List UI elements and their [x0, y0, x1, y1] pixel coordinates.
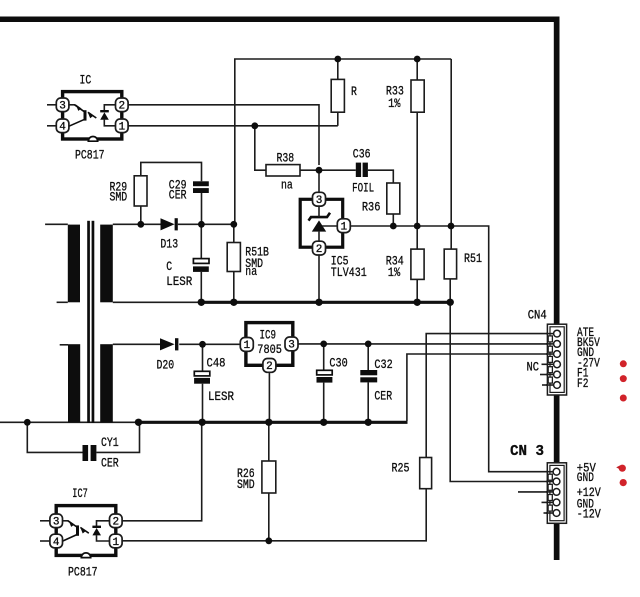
svg-text:C30: C30 — [329, 355, 347, 370]
wire: R51B top leg — [233, 224, 235, 242]
IC9 pin 1 oval — [240, 338, 253, 353]
transformer T1 — [68, 221, 113, 423]
svg-text:FOIL: FOIL — [352, 180, 374, 195]
resistor R26 — [262, 461, 276, 493]
svg-text:2: 2 — [266, 361, 273, 373]
wire: C30 bottom leg — [323, 383, 325, 423]
opto IC phototransistor bar — [84, 110, 87, 120]
wire: R51 column top (top rail to IC5 pin1 node) — [450, 59, 452, 250]
svg-text:-12V: -12V — [577, 507, 601, 522]
transformer upper secondary bar — [100, 225, 113, 303]
svg-text:CER: CER — [101, 456, 119, 471]
wire: IC9 pin3 to CN4 BK5V — [298, 343, 554, 345]
svg-text:2: 2 — [112, 517, 119, 529]
svg-text:1: 1 — [243, 340, 250, 352]
resistor R33 — [411, 80, 424, 112]
IC7 notch — [81, 553, 90, 558]
svg-text:TLV431: TLV431 — [331, 265, 367, 280]
CN3 pin circles — [553, 468, 560, 516]
opto IC LED triangle — [100, 112, 109, 119]
svg-text:R38: R38 — [277, 151, 295, 166]
wire: upper GND bus to CN3 GND — [450, 302, 552, 481]
capacitor C30 (polarized) — [317, 370, 333, 382]
wire: IC5 pin2 to upper GND bus — [318, 254, 320, 302]
resistors (white boxes) — [134, 79, 456, 493]
IC7 LED triangle — [92, 528, 101, 535]
wire: CN4 F1 stub — [540, 374, 553, 376]
wire: CN4 NC stub — [542, 363, 553, 365]
wire: C48 bottom leg to lower GND bus — [202, 384, 204, 423]
resistor R51B — [227, 243, 240, 272]
diode D13 — [161, 218, 178, 230]
wire: R51B bottom leg to upper GND bus — [233, 272, 235, 303]
wire: C32 bottom leg — [367, 382, 369, 422]
IC7 collector diagonal with arrowhead — [68, 521, 78, 528]
IC5 internal triangle — [312, 220, 326, 231]
opto IC pin 1 oval — [116, 119, 129, 134]
wire: D13 secondary rail right of diode — [178, 223, 234, 225]
svg-text:IC9: IC9 — [260, 328, 277, 343]
IC5 pin 1 oval — [337, 219, 350, 234]
wire: CN4 F2 stub — [542, 384, 553, 386]
wire: R26 top leg — [268, 422, 270, 461]
wire: CN3 +12V stub — [518, 491, 552, 493]
transformer core line left — [87, 221, 90, 423]
board border top bar — [0, 17, 560, 23]
CN3 teeth — [548, 474, 552, 511]
opto IC pin 4 oval — [56, 119, 69, 134]
resistor R29 — [134, 176, 147, 206]
svg-text:R36: R36 — [362, 199, 381, 214]
capacitor CY1 (vertical plates) — [83, 445, 97, 461]
svg-text:SMD: SMD — [110, 190, 128, 205]
CN4 wire tips through border — [546, 334, 554, 385]
wire: R36 bottom to IC5 pin1 wire — [392, 214, 394, 226]
red marker dot with tail near CN3 +5V — [616, 465, 626, 472]
connector CN3 — [546, 463, 567, 524]
wire: opto IC pin4 stub — [47, 125, 57, 127]
svg-text:IC7: IC7 — [72, 486, 88, 501]
board border right bar — [554, 17, 560, 561]
wire: C29 bottom to rail — [201, 193, 203, 224]
svg-text:R51: R51 — [464, 251, 482, 266]
wire: upper transformer primary bottom stub — [57, 301, 68, 303]
svg-text:3: 3 — [53, 517, 60, 529]
op-amp/regulator IC5 TLV431 box — [300, 199, 343, 247]
resistor R — [331, 79, 344, 112]
wire: CN3 GND2 stub — [542, 501, 553, 503]
svg-text:C36: C36 — [353, 146, 371, 161]
svg-text:4: 4 — [59, 122, 66, 134]
wire: R29 bottom stub — [140, 206, 142, 224]
wire: R26 bottom leg to IC7 pin1 run — [268, 493, 270, 541]
svg-text:C48: C48 — [207, 355, 226, 370]
wire: CN4 GND vertical from lower bus end — [407, 354, 553, 421]
wire: D13 secondary rail left of diode — [113, 223, 161, 225]
optocoupler IC (PC817) box — [63, 92, 122, 142]
svg-text:3: 3 — [316, 195, 323, 207]
CN3 wire tips through border — [546, 472, 553, 513]
transformer upper primary bar — [68, 225, 80, 303]
opto IC notch — [88, 137, 97, 142]
opto IC light arrow — [88, 112, 96, 118]
IC5 internal wires — [318, 203, 320, 217]
red marker dot near CN3 GND — [620, 479, 627, 486]
wire: C30 top leg — [323, 344, 325, 370]
opto IC pin 2 oval — [116, 98, 129, 113]
wire: IC5 pin1 to +5V corner — [350, 226, 552, 472]
wire: R33 bottom to IC5 pin1 wire — [416, 112, 418, 249]
wire: C LESR top leg — [200, 224, 202, 258]
svg-text:4: 4 — [53, 537, 60, 549]
wire: opto IC pin1 to R bottom — [127, 125, 338, 127]
IC7 emitter diagonal — [62, 534, 77, 541]
svg-text:R: R — [351, 84, 357, 99]
wire: R33 top stub — [416, 59, 418, 80]
regulator IC9 7805 box — [246, 323, 293, 366]
svg-text:2: 2 — [118, 101, 125, 113]
resistor R34 — [411, 249, 424, 279]
wire: IC7 pin4 stub — [40, 540, 51, 542]
diode D20 — [160, 338, 178, 350]
wire: CY1 left leg — [27, 422, 82, 452]
svg-text:CY1: CY1 — [101, 435, 119, 450]
svg-text:1%: 1% — [388, 96, 401, 111]
wire: opto IC pin2 to R38/C36 node — [127, 105, 319, 165]
wire: IC7 pin3 stub — [40, 520, 51, 522]
CN4 teeth — [548, 336, 552, 383]
wire: R38 right to node to C36 left — [300, 169, 356, 171]
svg-text:IC: IC — [80, 73, 92, 88]
svg-text:PC817: PC817 — [68, 565, 98, 580]
svg-text:3: 3 — [288, 340, 295, 352]
svg-text:PC817: PC817 — [75, 148, 105, 163]
svg-text:NC: NC — [527, 360, 540, 375]
transformer lower secondary bar — [100, 344, 113, 422]
opto IC pin3 internal stub — [69, 104, 75, 106]
optocoupler IC7 (PC817) box — [56, 506, 116, 558]
red marker dots near CN4 — [620, 360, 627, 401]
wire: upper GND bus thin part — [113, 301, 202, 303]
IC9 pin 3 oval — [285, 337, 298, 352]
svg-text:1%: 1% — [388, 265, 401, 280]
IC5 pin 3 oval — [313, 192, 326, 207]
opto IC collector diagonal with arrowhead — [75, 105, 85, 112]
opto IC pin 3 oval — [56, 98, 69, 113]
resistor R25 — [420, 458, 432, 489]
wire: lower GND bus thin part — [0, 421, 139, 423]
svg-text:CER: CER — [374, 389, 392, 404]
svg-text:LESR: LESR — [166, 274, 192, 289]
wire: opto IC pin3 stub — [47, 104, 57, 106]
opto IC emitter diagonal — [69, 119, 85, 126]
IC7 LED wires — [97, 521, 112, 527]
IC7 phototransistor bar — [76, 525, 79, 535]
svg-text:1: 1 — [118, 122, 125, 134]
wire: upper GND bus thick part — [201, 301, 452, 304]
svg-text:CN4: CN4 — [528, 308, 547, 323]
IC9 pin 2 oval — [263, 359, 276, 374]
wire: R bottom stub — [337, 112, 339, 126]
wire: D20 rail diode to IC9 pin1 — [179, 343, 241, 345]
IC7 light arrow — [81, 528, 89, 534]
svg-text:R25: R25 — [392, 461, 410, 476]
transformer lower primary bar — [68, 344, 80, 422]
transformer core line right — [92, 221, 95, 423]
wire: R top stub — [337, 59, 339, 79]
IC5 pin 2 oval — [313, 241, 326, 256]
capacitor C29 (ceramic, 2 solid plates) — [193, 181, 209, 193]
svg-text:C: C — [166, 259, 172, 274]
svg-text:D20: D20 — [157, 358, 175, 373]
wire: CN4 ATE wire and R25 top — [426, 334, 553, 458]
svg-text:1: 1 — [112, 537, 119, 549]
CN4 pin circles — [554, 330, 561, 388]
opto IC LED cathode bar — [100, 110, 109, 112]
IC5 internal cathode bar — [309, 213, 331, 221]
IC7 pin 3 oval — [50, 514, 63, 529]
wire: IC9 pin2 down to lower GND bus — [268, 371, 270, 422]
svg-text:SMD: SMD — [237, 477, 255, 492]
svg-text:2: 2 — [316, 244, 323, 256]
wire: node down to IC5 pin3 — [318, 170, 320, 193]
svg-text:7805: 7805 — [257, 342, 282, 357]
wire: lower transformer primary top stub — [60, 344, 68, 346]
svg-text:D13: D13 — [160, 237, 178, 252]
wire: C32 top leg — [367, 344, 369, 370]
wire: top feedback rail y=59 — [235, 59, 451, 224]
capacitor C36 (foil, vertical plates) — [356, 163, 368, 177]
wire: R25 bottom to IC7 pin1 run — [122, 489, 427, 541]
IC7 pin 2 oval — [110, 514, 123, 529]
wire: R38 left leg from pin1 wire — [255, 126, 266, 170]
wire: CY1 right leg — [96, 422, 139, 452]
svg-text:GND: GND — [577, 470, 594, 485]
wire: CN3 -12V stub — [544, 512, 553, 514]
svg-text:CN 3: CN 3 — [510, 443, 544, 460]
IC7 pin3 internal stub — [63, 520, 69, 522]
IC7 pin 4 oval — [50, 534, 63, 549]
svg-text:LESR: LESR — [208, 389, 234, 404]
svg-text:CER: CER — [169, 187, 187, 202]
connector CN4 — [546, 324, 567, 395]
capacitor C32 (ceramic) — [360, 370, 377, 382]
wire: R51 bottom to upper GND bus — [449, 279, 451, 302]
wire: lower GND bus thick part — [139, 421, 408, 424]
wire: D20 rail left of diode — [113, 343, 160, 345]
svg-text:C32: C32 — [374, 357, 392, 372]
capacitor C48 (polarized) — [194, 371, 210, 383]
wire: C36 right to R36 top — [368, 170, 393, 183]
capacitor C LESR (polarized) — [193, 259, 209, 272]
svg-text:3: 3 — [59, 101, 66, 113]
resistor R51 — [444, 249, 456, 279]
IC7 pin 1 oval — [110, 534, 123, 549]
resistor R36 — [387, 183, 400, 214]
wire: R34 bottom to upper GND bus — [416, 279, 418, 302]
opto IC LED wires — [104, 105, 118, 111]
wire: upper transformer primary top stub — [45, 223, 68, 225]
wire: IC7 pin2 to C48 column up to lower bus — [122, 422, 202, 521]
resistor R38 — [266, 165, 300, 176]
wire: C48 top leg — [202, 344, 204, 371]
IC7 LED cathode bar — [92, 526, 101, 528]
svg-text:F2: F2 — [577, 376, 588, 391]
svg-text:1: 1 — [340, 222, 347, 234]
svg-text:na: na — [245, 264, 257, 279]
svg-text:na: na — [281, 178, 293, 193]
wire: C LESR bottom leg to upper GND bus — [200, 272, 202, 302]
wire: R29 top link to C29 top — [141, 162, 202, 181]
